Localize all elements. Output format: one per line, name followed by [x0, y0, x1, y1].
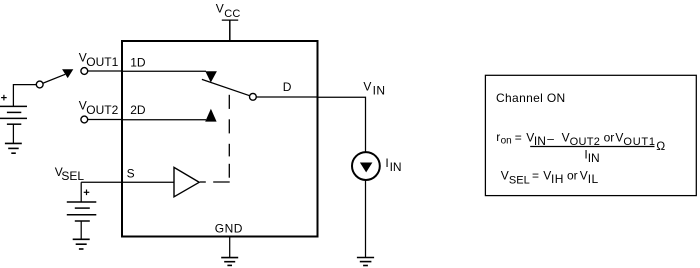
ground (battery B2): [73, 239, 90, 249]
svg-text:=: =: [532, 169, 539, 183]
wire current source to ground: [365, 180, 367, 257]
VSEL label: [55, 165, 85, 183]
svg-text:I: I: [385, 156, 388, 170]
svg-text:Ω: Ω: [656, 139, 665, 153]
wire VOUT1 to box: [88, 70, 122, 72]
VOUT2 label: [79, 98, 119, 117]
battery B2: [67, 202, 97, 221]
svg-text:V: V: [562, 130, 570, 144]
svg-text:OUT1: OUT1: [86, 55, 118, 69]
ground (battery B1): [5, 143, 22, 153]
wire VCC pin: [229, 20, 231, 41]
svg-text:=: =: [515, 131, 522, 145]
mux contact 1D arrow: [205, 71, 217, 82]
switch SW1 throw wire: [40, 74, 65, 84]
note formula VSEL: [501, 169, 599, 187]
svg-text:SEL: SEL: [509, 174, 530, 186]
ground (GND pin): [221, 258, 238, 266]
svg-text:IN: IN: [588, 151, 600, 165]
VCC rail bar: [222, 19, 238, 21]
wire battery B2 to ground: [80, 221, 82, 239]
note box: [485, 75, 696, 195]
svg-text:–: –: [547, 131, 554, 145]
svg-text:IH: IH: [551, 172, 564, 186]
svg-text:IN: IN: [390, 160, 402, 174]
wire 2D: [122, 119, 206, 121]
wire battery B1 to ground: [12, 124, 14, 143]
IC box U1: [122, 41, 318, 237]
mux pole circle: [250, 93, 257, 100]
svg-text:Channel ON: Channel ON: [496, 91, 566, 105]
svg-text:or: or: [604, 130, 615, 144]
svg-text:V: V: [615, 130, 623, 144]
svg-text:CC: CC: [224, 8, 240, 20]
terminal VOUT1: [81, 68, 88, 75]
svg-text:2D: 2D: [130, 103, 146, 117]
svg-text:IL: IL: [588, 172, 599, 186]
current source I1 circle: [352, 152, 380, 180]
note denominator IIN: [584, 147, 599, 165]
svg-text:or: or: [567, 169, 578, 183]
svg-text:IN: IN: [373, 83, 386, 97]
VIN label: [363, 80, 385, 98]
fraction bar: [530, 146, 654, 148]
ground (current source): [357, 258, 374, 266]
battery B2 wire from VSEL: [80, 182, 82, 202]
VCC label: [216, 2, 241, 20]
battery B2 plus sign: [84, 190, 90, 196]
note formula ron: [496, 130, 656, 148]
mux contact 2D arrow: [205, 109, 216, 122]
wire D to current source: [318, 97, 366, 152]
mux throw wire: [202, 79, 253, 96]
svg-text:SEL: SEL: [61, 169, 84, 183]
VOUT1 label: [79, 51, 119, 70]
svg-text:on: on: [501, 136, 512, 147]
svg-text:1D: 1D: [130, 55, 146, 69]
svg-text:r: r: [496, 130, 500, 144]
switch SW1 contact arrow: [62, 69, 73, 78]
battery B1 plus sign: [1, 95, 7, 101]
wire VOUT2 to box: [88, 119, 122, 121]
svg-text:GND: GND: [215, 222, 243, 236]
IIN label: [385, 156, 401, 174]
wire 1D: [122, 70, 206, 72]
svg-text:V: V: [543, 169, 551, 183]
wire VSEL to buffer: [81, 181, 174, 183]
wire battery B1 top to switch: [13, 85, 36, 107]
svg-text:V: V: [363, 80, 371, 94]
current source I1 arrow: [360, 163, 373, 173]
battery B1: [0, 106, 27, 124]
wire D output: [256, 96, 317, 98]
wire GND pin: [229, 238, 231, 258]
dashed control link: [200, 95, 230, 182]
svg-text:OUT2: OUT2: [86, 103, 118, 117]
svg-text:V: V: [501, 169, 509, 183]
switch SW1 pole circle: [36, 81, 43, 88]
svg-text:V: V: [580, 169, 588, 183]
svg-text:D: D: [283, 80, 292, 94]
terminal VOUT2: [81, 116, 88, 123]
svg-text:S: S: [127, 166, 135, 180]
buffer U1A: [174, 167, 199, 196]
svg-text:V: V: [216, 2, 224, 16]
